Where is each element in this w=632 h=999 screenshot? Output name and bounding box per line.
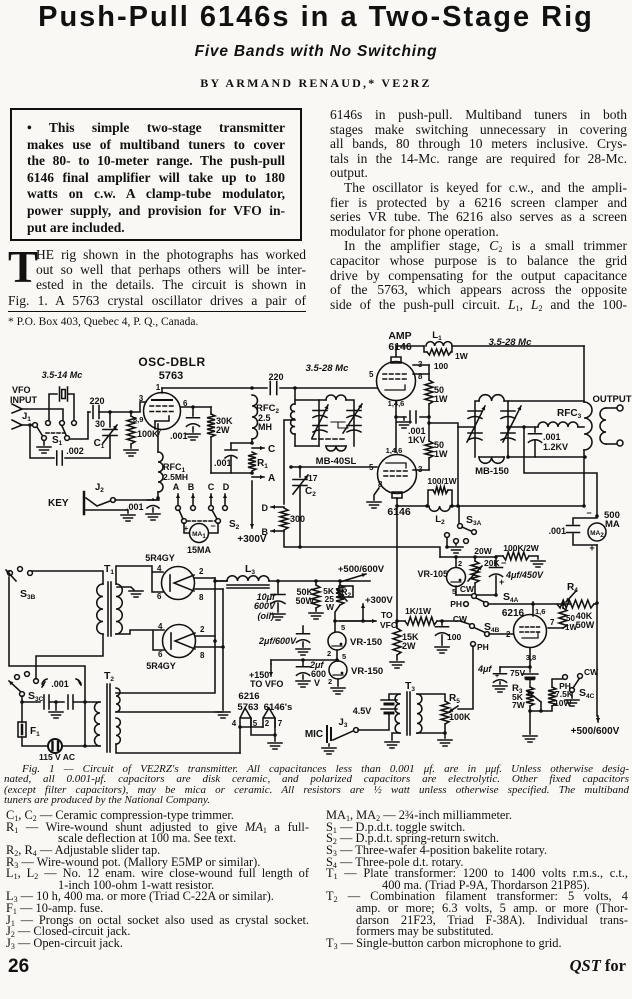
svg-text:T3: T3: [405, 680, 415, 693]
jack J3 MIC: [305, 717, 389, 742]
svg-text:6216: 6216: [238, 691, 259, 702]
wire TO VFO arrow: [340, 610, 398, 630]
svg-text:2: 2: [200, 625, 205, 634]
node D tap: [262, 503, 285, 513]
switch S1: [37, 421, 76, 447]
svg-text:TO: TO: [381, 610, 393, 620]
svg-text:S3B: S3B: [20, 588, 36, 601]
svg-text:J2: J2: [95, 482, 104, 494]
svg-text:2μf/600V: 2μf/600V: [258, 636, 297, 646]
svg-text:B: B: [188, 482, 195, 492]
svg-text:1K/1W: 1K/1W: [405, 606, 432, 616]
transformer T2: [85, 670, 120, 752]
switch S2: [176, 506, 240, 531]
svg-text:CW: CW: [453, 614, 468, 624]
svg-text:PH: PH: [477, 642, 489, 652]
svg-text:6: 6: [158, 650, 163, 659]
svg-text:4.5V: 4.5V: [353, 706, 372, 716]
svg-text:+300V: +300V: [365, 595, 393, 606]
svg-text:MIC: MIC: [305, 729, 323, 740]
svg-text:1,6: 1,6: [535, 607, 545, 616]
svg-text:+500/600V: +500/600V: [338, 564, 385, 575]
battery 4.5V: [353, 694, 400, 729]
svg-text:5: 5: [253, 719, 258, 728]
switch S3A: [458, 506, 482, 534]
svg-text:MA1: MA1: [192, 531, 206, 540]
svg-text:R1: R1: [257, 458, 268, 470]
svg-text:+500/600V: +500/600V: [571, 726, 620, 737]
wire screen riser: [396, 498, 398, 621]
svg-text:VR-150: VR-150: [351, 666, 383, 677]
capacitor 10uf oil: [254, 579, 285, 621]
tube V7 VR-150: [328, 652, 383, 694]
capacitor .002: [30, 425, 110, 465]
svg-text:S2: S2: [229, 519, 240, 531]
svg-text:4: 4: [158, 622, 163, 631]
tuner MB-150: [458, 395, 521, 464]
wire rectifier bus 8: [116, 589, 230, 718]
fuse F1: [18, 700, 40, 738]
choke RFC2 2.5MH: [252, 395, 280, 443]
svg-text:7: 7: [278, 719, 283, 728]
svg-text:100K/2W: 100K/2W: [503, 543, 539, 553]
svg-text:RFC3: RFC3: [557, 408, 582, 420]
svg-text:−: −: [501, 558, 506, 568]
svg-text:5763: 5763: [159, 370, 183, 382]
choke RFC1 2.5MH: [158, 424, 188, 492]
wire 50-1W to pin7: [562, 627, 564, 629]
label 3.5-28 Mc left: [306, 363, 349, 374]
ground V3 pin8: [367, 488, 381, 508]
svg-text:7W: 7W: [512, 700, 526, 710]
switch S3B: [6, 567, 36, 601]
capacitor .001 1KV: [394, 411, 429, 445]
svg-text:20W: 20W: [474, 546, 492, 556]
ground 100K: [124, 450, 138, 456]
capacitor 220 interstage: [268, 372, 283, 395]
resistor R4 40K 50W: [557, 582, 597, 630]
svg-text:3,8: 3,8: [526, 653, 536, 662]
wire clamper top: [440, 555, 498, 559]
tube VR-105: [417, 557, 465, 596]
switch S3 wafer contacts: [445, 533, 469, 553]
resistor 20K pot: [468, 557, 500, 595]
svg-text:115 V AC: 115 V AC: [39, 752, 75, 762]
svg-text:+: +: [499, 577, 504, 587]
svg-text:50W: 50W: [576, 620, 595, 630]
svg-text:5: 5: [369, 463, 374, 472]
link coil: [584, 402, 592, 506]
svg-text:CW: CW: [460, 584, 475, 594]
capacitor .001 key: [126, 499, 160, 520]
svg-text:S4C: S4C: [579, 687, 595, 700]
capacitor line filter .001: [22, 679, 85, 718]
svg-text:L2: L2: [435, 514, 445, 526]
svg-text:VFO: VFO: [12, 385, 31, 395]
svg-text:100K: 100K: [137, 429, 159, 439]
tube V2 6146: [369, 346, 423, 408]
svg-text:8,9: 8,9: [133, 415, 143, 424]
resistor 100K/2W: [496, 543, 540, 560]
ground J3: [322, 744, 336, 754]
ground 100K/2W: [531, 561, 545, 567]
svg-text:V: V: [314, 678, 320, 688]
wire to +300V: [237, 481, 267, 545]
svg-text:2W: 2W: [216, 425, 230, 435]
wire rail to grid: [280, 387, 377, 389]
resistor R2 5K 25W: [323, 579, 353, 621]
ground T3 pri: [385, 733, 400, 748]
svg-text:4μf: 4μf: [477, 664, 492, 674]
plug 115VAC: [22, 737, 87, 762]
svg-text:TO VFO: TO VFO: [250, 679, 283, 689]
svg-text:+: +: [495, 673, 499, 680]
svg-text:A: A: [173, 482, 180, 492]
svg-text:5R4GY: 5R4GY: [146, 661, 176, 671]
svg-text:8: 8: [200, 651, 205, 660]
svg-text:INPUT: INPUT: [10, 395, 38, 405]
svg-text:5763: 5763: [237, 702, 258, 713]
tube V1 5763 OSC-DBLR: [133, 383, 188, 437]
svg-text:.001: .001: [51, 679, 69, 689]
svg-text:1W: 1W: [434, 394, 448, 404]
wire VFO supply: [333, 619, 375, 623]
svg-text:MA2: MA2: [590, 530, 604, 539]
resistor 50K 50W: [295, 579, 323, 619]
capacitor .001 R1: [214, 443, 252, 473]
wire MA2 to R4: [595, 545, 599, 605]
svg-text:C2: C2: [305, 486, 316, 498]
svg-text:J1: J1: [22, 411, 31, 423]
svg-text:2.5MH: 2.5MH: [163, 472, 188, 482]
svg-text:7: 7: [550, 618, 555, 627]
wire +300V tap: [361, 595, 393, 623]
svg-text:4: 4: [157, 564, 162, 573]
capacitor 2uf 600 V second: [296, 660, 326, 688]
svg-text:J3: J3: [339, 717, 348, 729]
wire rectifier bus 2: [116, 578, 227, 693]
wire plate rail: [162, 386, 267, 390]
svg-text:1W: 1W: [565, 623, 577, 632]
wire tank top: [508, 346, 584, 402]
svg-text:+: +: [589, 543, 594, 553]
svg-text:C: C: [208, 482, 215, 492]
svg-text:MB-150: MB-150: [475, 466, 509, 477]
svg-text:C: C: [268, 444, 275, 455]
svg-text:1: 1: [156, 383, 161, 392]
svg-text:100/1W: 100/1W: [427, 476, 457, 486]
svg-text:VR-105: VR-105: [417, 569, 448, 579]
wire PH to R5: [458, 646, 473, 709]
svg-text:100: 100: [434, 361, 448, 371]
svg-text:30: 30: [95, 419, 105, 429]
svg-text:(oil): (oil): [258, 611, 275, 621]
resistor 15K 2W: [390, 621, 419, 668]
resistor 1K/1W: [395, 606, 442, 625]
label AMP 6146: [388, 330, 412, 353]
svg-text:6146: 6146: [387, 506, 411, 518]
svg-text:VR-150: VR-150: [350, 637, 382, 648]
wire 220 to tube: [99, 402, 146, 414]
coil 40SL input: [284, 386, 319, 446]
wire B+ arrow 500/600: [338, 564, 385, 582]
svg-text:MB-40SL: MB-40SL: [316, 456, 357, 467]
meter MA2 500MA: [548, 508, 619, 553]
wire tank bottom: [506, 455, 587, 459]
svg-text:L1: L1: [432, 330, 442, 342]
svg-text:3.5-28 Mc: 3.5-28 Mc: [489, 337, 532, 348]
svg-text:.001: .001: [543, 432, 561, 442]
wire cathode bus: [395, 401, 397, 452]
choke RFC3: [508, 408, 584, 429]
wire S3C to T1 primary: [36, 634, 103, 679]
svg-text:F1: F1: [30, 726, 40, 738]
ground J2: [86, 510, 135, 521]
wire screen line: [181, 405, 211, 409]
svg-text:S4A: S4A: [503, 591, 519, 604]
svg-text:W: W: [326, 602, 335, 612]
svg-text:MH: MH: [258, 422, 272, 432]
svg-text:D: D: [223, 482, 230, 492]
label 3.5-14 Mc: [42, 370, 83, 380]
svg-text:6: 6: [157, 592, 162, 601]
svg-text:2: 2: [458, 559, 462, 568]
wire clamper bottom: [456, 593, 498, 597]
wire grid stub V3: [413, 469, 429, 471]
switch S4C: [559, 667, 599, 706]
svg-text:100K: 100K: [449, 712, 471, 722]
node C tap: [250, 441, 275, 455]
wire J1 top to S1: [22, 409, 63, 427]
choke L3: [215, 563, 370, 588]
svg-text:+: +: [184, 524, 189, 533]
svg-text:R5: R5: [449, 693, 460, 705]
svg-text:1KV: 1KV: [408, 435, 426, 445]
svg-text:PH: PH: [450, 599, 462, 609]
svg-text:−: −: [210, 521, 215, 531]
svg-text:20K: 20K: [484, 558, 500, 568]
tuner MB-40SL: [312, 395, 362, 451]
svg-text:6146: 6146: [388, 341, 412, 353]
capacitor 100: [435, 619, 461, 653]
resistor 7.5K 10W: [548, 679, 574, 708]
svg-text:S1: S1: [52, 435, 63, 447]
tube V6 VR-150: [327, 621, 382, 660]
crystal Y1: [49, 387, 74, 420]
svg-text:R4: R4: [567, 582, 578, 594]
svg-text:300: 300: [290, 514, 305, 524]
capacitor 2uf/600V first: [258, 626, 310, 655]
svg-text:5: 5: [369, 370, 374, 379]
wire B+ feed: [284, 531, 440, 557]
svg-text:OSC-DBLR: OSC-DBLR: [138, 355, 205, 369]
resistor 300: [280, 508, 305, 530]
resistor R1: [248, 452, 268, 471]
svg-text:S4B: S4B: [484, 621, 500, 634]
svg-text:L3: L3: [245, 563, 255, 576]
svg-text:2: 2: [199, 567, 204, 576]
svg-text:220: 220: [268, 372, 283, 382]
resistor 50 1W lower: [425, 440, 448, 470]
wire VR row: [271, 658, 339, 662]
wire cathode down: [157, 492, 159, 499]
meter MA1 15MA: [184, 521, 218, 555]
capacitor .001 screen: [170, 407, 200, 441]
wire heater bottom: [116, 744, 240, 753]
wire key line: [115, 496, 160, 500]
battery 75V: [510, 667, 538, 687]
wire grid chain: [427, 404, 431, 441]
svg-text:6146's: 6146's: [264, 702, 293, 713]
wire grid node: [88, 411, 90, 413]
svg-text:.001: .001: [548, 526, 566, 536]
label 3.5-28 Mc right: [489, 337, 532, 348]
svg-text:4: 4: [232, 719, 237, 728]
heater pins 6216 5763 6146s: [232, 691, 293, 753]
rectifier V4 5R4GY: [116, 553, 223, 602]
label MB-150: [475, 466, 509, 477]
svg-text:1W: 1W: [434, 449, 448, 459]
label OUTPUT: [592, 394, 631, 405]
svg-text:50: 50: [566, 614, 575, 623]
resistor 50 1W upper: [425, 365, 448, 404]
svg-text:1W: 1W: [455, 351, 469, 361]
resistor R3 pot 5K 7W: [512, 683, 541, 710]
label MB-40SL: [316, 456, 357, 467]
wire grid stubs V2: [413, 365, 429, 374]
resistor 100K grid leak: [127, 412, 159, 448]
transformer T1: [97, 563, 123, 636]
wire B+ down: [571, 603, 620, 737]
svg-text:600V: 600V: [254, 601, 276, 611]
svg-text:75V: 75V: [510, 668, 525, 678]
wire B+ RFC3: [524, 427, 597, 514]
svg-text:1,4,6: 1,4,6: [386, 446, 403, 455]
svg-text:D: D: [262, 503, 269, 513]
capacitor 4uf/450V: [490, 557, 544, 595]
resistor 30K 2W: [207, 407, 233, 473]
svg-text:2: 2: [328, 677, 332, 686]
svg-text:.001: .001: [170, 431, 188, 441]
wire D-300-B riser: [283, 421, 285, 504]
resistor R5 pot 100K: [417, 693, 471, 746]
capacitor .001 1.2KV: [529, 427, 569, 457]
node A arrow: [173, 482, 180, 505]
svg-text:8: 8: [199, 593, 204, 602]
capacitor 220 grid: [89, 396, 104, 419]
svg-text:MA: MA: [605, 519, 620, 530]
svg-text:.002: .002: [66, 446, 84, 456]
svg-text:A: A: [268, 473, 275, 484]
svg-text:4μf/450V: 4μf/450V: [505, 570, 544, 580]
transformer T3: [395, 680, 422, 735]
svg-text:5: 5: [342, 652, 346, 661]
ground T1 ct: [117, 587, 143, 597]
trimmer C2 17: [293, 467, 318, 547]
node B tap: [262, 527, 285, 537]
node A tap: [252, 473, 275, 484]
svg-text:C1: C1: [94, 438, 105, 450]
svg-text:220: 220: [89, 396, 104, 406]
switch S4A: [450, 584, 518, 609]
switch S3C: [9, 672, 44, 703]
output coil: [600, 405, 623, 446]
svg-text:3.5-28 Mc: 3.5-28 Mc: [306, 363, 349, 374]
svg-text:15MA: 15MA: [187, 545, 212, 555]
wire A line: [211, 471, 254, 475]
node D arrow: [223, 482, 230, 505]
svg-text:2W: 2W: [402, 641, 416, 651]
trimmer C1 30: [94, 412, 117, 458]
svg-text:100: 100: [447, 632, 461, 642]
svg-text:KEY: KEY: [48, 498, 69, 509]
svg-text:2: 2: [327, 649, 331, 658]
wire grid lower rail: [289, 465, 377, 469]
svg-text:5: 5: [341, 623, 345, 632]
node B arrow: [188, 482, 195, 505]
svg-text:3.5-14 Mc: 3.5-14 Mc: [42, 370, 83, 380]
svg-text:T2: T2: [104, 670, 114, 683]
svg-text:B: B: [262, 527, 269, 537]
svg-text:S3C: S3C: [28, 690, 44, 703]
jack J1: [12, 404, 37, 429]
suppressor L2 100/1W: [395, 476, 457, 526]
label 20W: [474, 546, 492, 556]
tube V3 6146: [369, 446, 423, 518]
wire cathode 6216: [500, 665, 532, 669]
svg-text:.001: .001: [214, 458, 232, 468]
capacitor 4uf bias: [477, 664, 507, 692]
svg-text:17: 17: [308, 473, 318, 483]
switch S4B: [442, 614, 513, 652]
node C arrow: [208, 482, 215, 505]
svg-text:3: 3: [139, 394, 144, 403]
svg-text:2: 2: [265, 719, 270, 728]
svg-text:50W: 50W: [295, 596, 314, 606]
svg-text:T1: T1: [104, 563, 114, 576]
svg-text:OUTPUT: OUTPUT: [592, 394, 631, 405]
tube U1 6216: [502, 602, 563, 667]
resistor 50 1W 6216: [559, 604, 577, 632]
svg-text:.001: .001: [126, 502, 144, 512]
svg-text:5R4GY: 5R4GY: [145, 553, 175, 563]
svg-text:VFO: VFO: [380, 620, 398, 630]
wire S3B to T1: [32, 571, 103, 584]
svg-text:1.2KV: 1.2KV: [543, 442, 568, 452]
svg-text:S3A: S3A: [466, 514, 482, 527]
wire +150 to VFO: [249, 660, 283, 689]
wire S3B neutral: [9, 577, 87, 746]
suppressor L1: [396, 330, 584, 371]
label OSC-DBLR 5763: [138, 355, 205, 382]
label VFO INPUT: [10, 385, 38, 405]
jack J2 KEY: [48, 482, 115, 514]
rectifier V5 5R4GY: [116, 622, 225, 671]
svg-text:−: −: [586, 508, 591, 518]
wire plate rail out: [452, 504, 586, 508]
wire bias bottom: [523, 702, 552, 742]
ground S1: [37, 412, 88, 453]
wire chain to rail: [429, 423, 460, 508]
wire screen line R4: [488, 602, 571, 606]
